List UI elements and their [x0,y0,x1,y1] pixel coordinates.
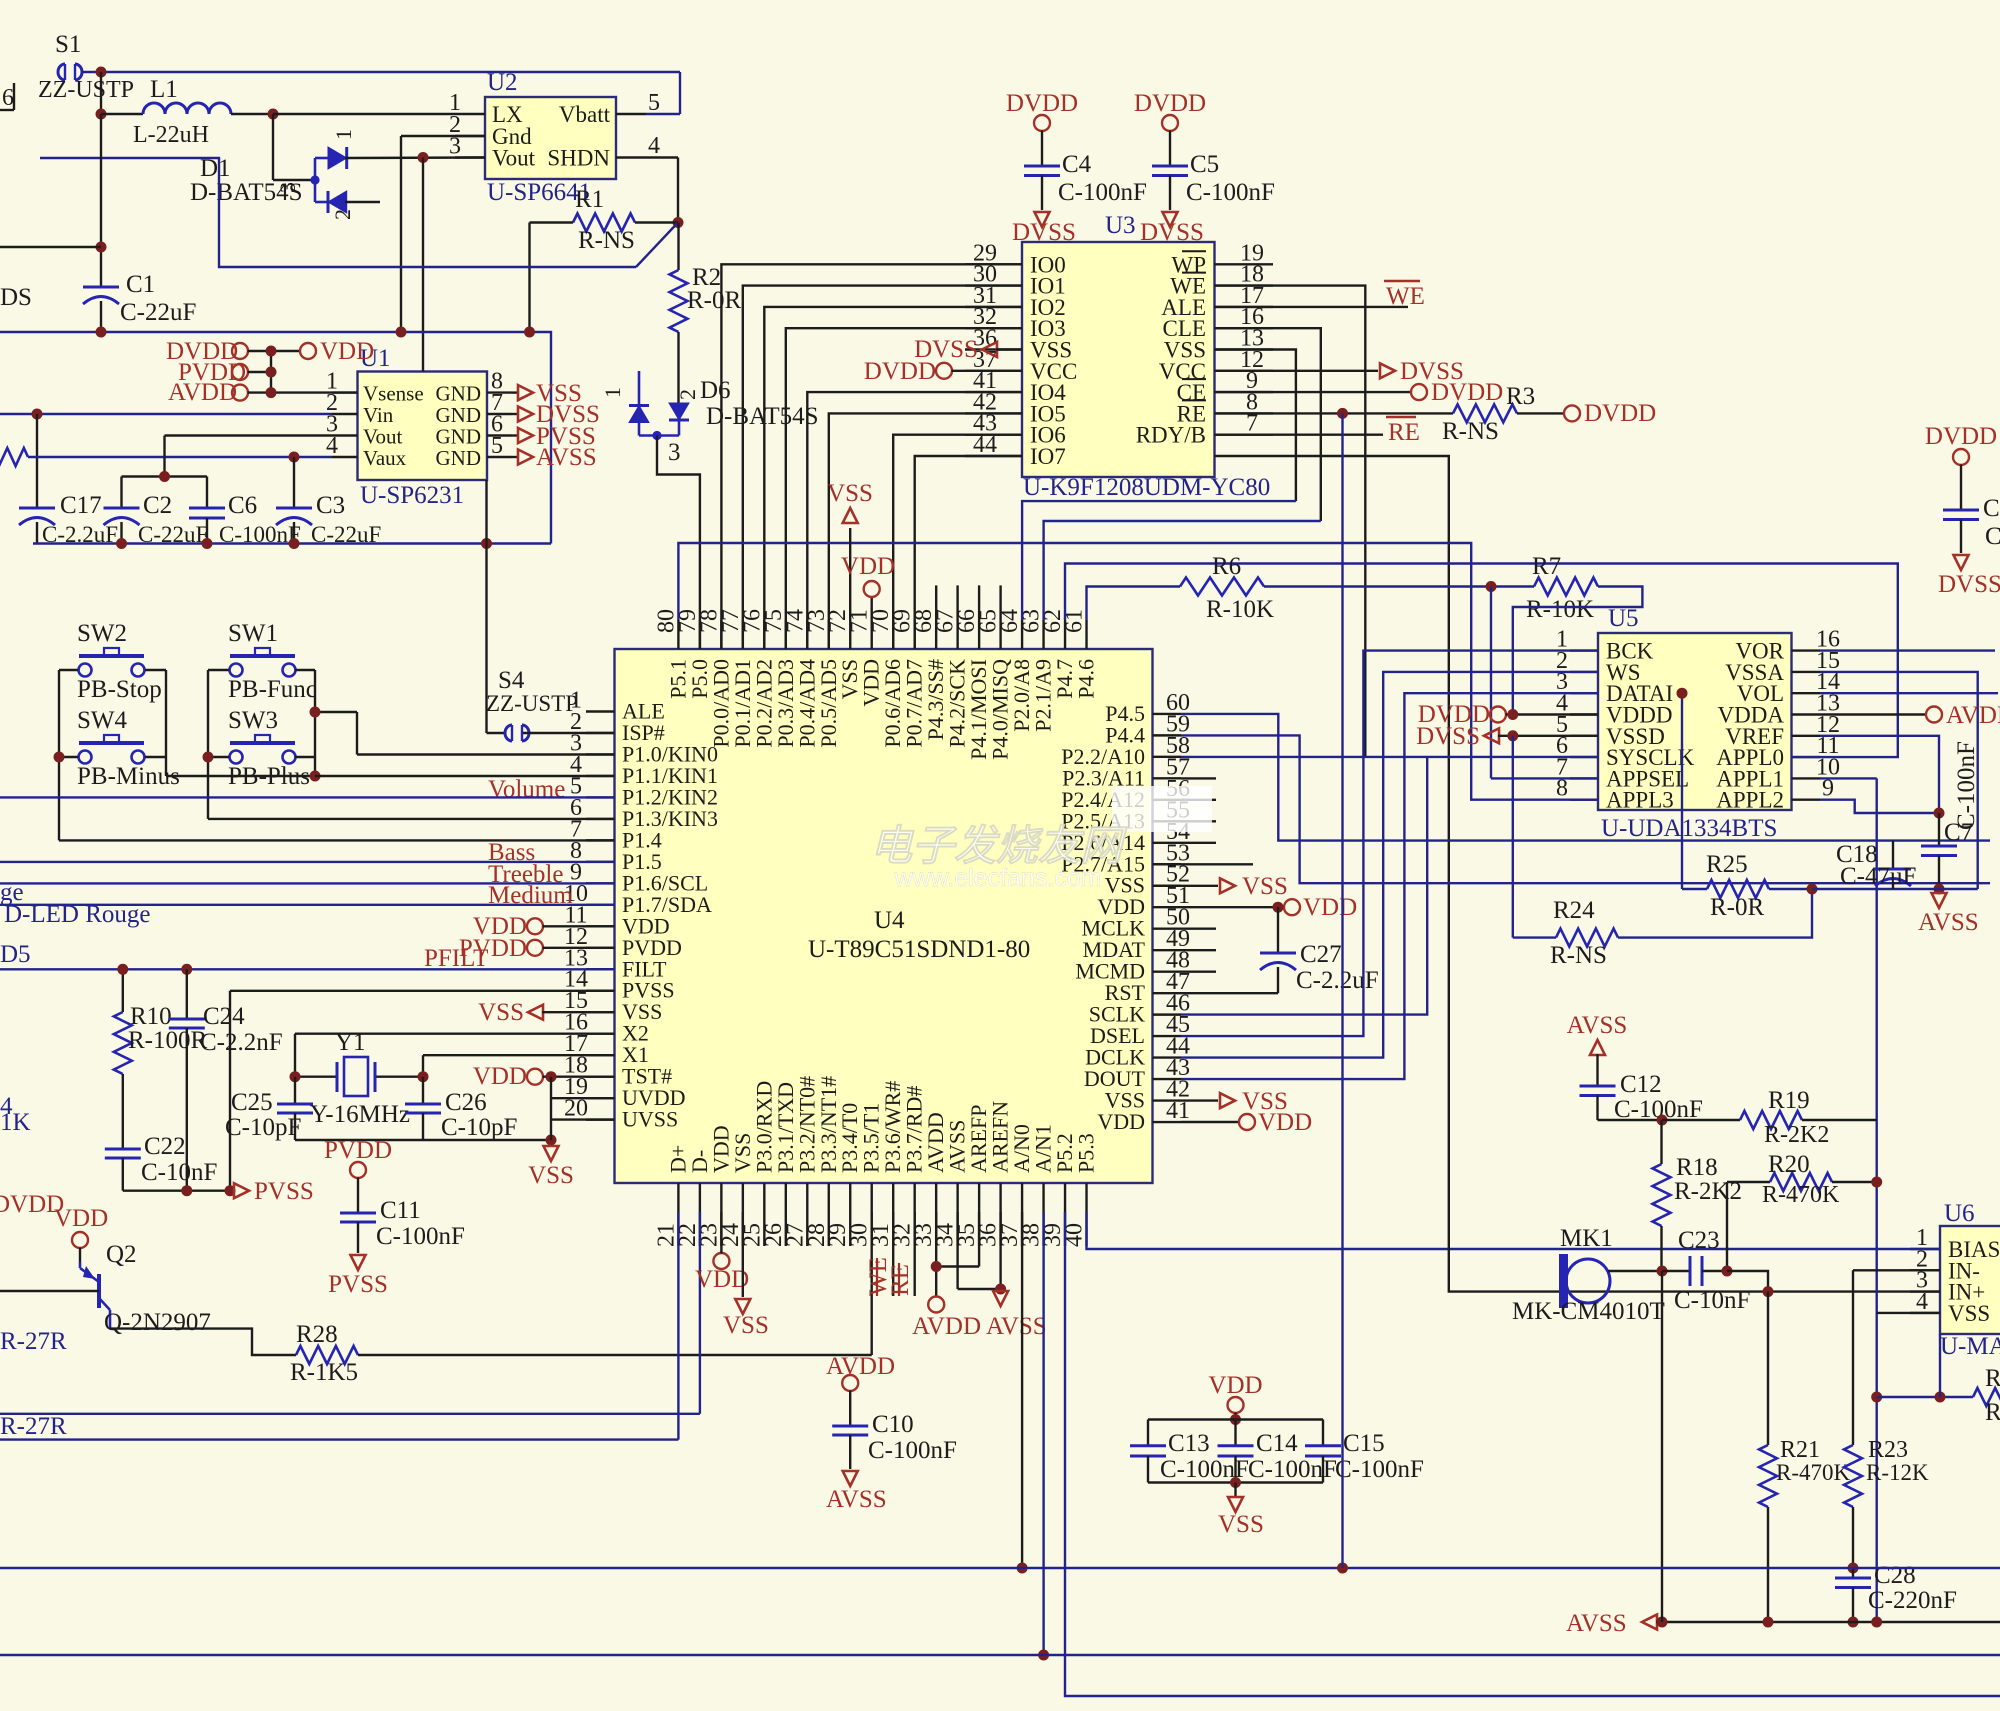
svg-text:R-10K: R-10K [1526,596,1594,623]
svg-text:U-SP6231: U-SP6231 [360,482,464,509]
wire R24 right up to R25 node [1618,889,1812,938]
svg-text:AVDD: AVDD [912,1313,981,1340]
svg-text:PB-Func: PB-Func [228,676,317,703]
junction rail Gnd [396,327,407,338]
svg-text:PVSS: PVSS [254,1178,314,1205]
svg-text:3: 3 [275,182,300,193]
wire SCLK pin46 to SYSCLK line [1181,757,1427,1015]
svg-text:U6: U6 [1944,1200,1975,1227]
power port VDD pin41 [1181,1109,1312,1136]
power arrow DVSS below C4 [1012,212,1076,246]
net label Medium and P1.7 wire [0,882,615,909]
wire WP down to bus [1215,286,1366,757]
junction L1 left [96,109,107,120]
svg-text:AVSS: AVSS [1918,909,1979,936]
net label PFILT and FILT wire [0,945,615,972]
wire left edge to C1 [0,246,101,248]
junction C3 tap [289,452,300,463]
svg-text:DVSS: DVSS [1938,571,2000,598]
svg-text:S1: S1 [55,31,81,58]
capacitor C24 C-2.2nF [169,969,283,1190]
svg-text:L-22uH: L-22uH [133,122,209,148]
wire IO4 to AD4 [807,392,1022,649]
wire D1 cathode to U2 Vout [345,156,485,159]
svg-text:1K: 1K [0,1109,31,1136]
svg-text:C4: C4 [1062,151,1092,178]
IC U2 body U-SP6641 [485,69,616,206]
wire IN- to R23 [1853,1270,1940,1445]
power port PVDD pin12 [459,935,615,962]
watermark text [870,822,1128,892]
power arrow VSS pin15 [478,999,614,1026]
svg-text:U-T89C51SDND1-80: U-T89C51SDND1-80 [808,936,1030,963]
junction R1 right node [673,217,684,228]
svg-text:VSS: VSS [1242,873,1288,900]
switch S1 ZZ-USTP [38,31,134,103]
junction AVDD row [266,387,277,398]
power port VDD pin71 [841,553,895,620]
svg-text:C-100nF: C-100nF [1248,1456,1337,1483]
svg-text:APPL3: APPL3 [1606,788,1674,813]
label R-27R upper [0,1328,67,1355]
wire VSSA right down to AVSS node [1820,672,1978,889]
wire APPSEL down [1491,587,1598,779]
svg-text:VDD: VDD [320,338,374,365]
wire R28 to P3.5 pin30 [871,1212,873,1355]
left edge labels R4 1K [0,1093,31,1136]
wire C12 to R18 R19 node [1598,1119,1663,1121]
svg-text:C23: C23 [1678,1227,1720,1254]
svg-text:2: 2 [675,389,700,400]
stub pin48 [1181,971,1216,973]
U4 pin names, numbers and stubs [564,609,1190,1247]
wire Vout node down to U1 [422,158,424,372]
junction C23 right R20 [1722,1266,1733,1277]
U2 pin names, numbers and stubs [449,90,660,171]
wire P1.1 row [315,775,615,777]
svg-text:C-100nF: C-100nF [1058,179,1147,206]
svg-text:Q2: Q2 [106,1241,137,1268]
resistor R10 R-100R [114,969,208,1149]
diode D6 D-BAT54S [600,371,819,466]
junction rail C3 [289,538,300,549]
junction AVSS R21 [1763,1617,1774,1628]
svg-text:SW4: SW4 [77,707,128,734]
power port VDD pin11 [473,913,615,940]
svg-text:R-10K: R-10K [1206,596,1274,623]
svg-text:GND: GND [436,446,482,470]
svg-text:VDD: VDD [695,1266,749,1293]
svg-text:R-NS: R-NS [1442,418,1499,445]
junction DVDD row [266,346,277,357]
svg-text:P5.3: P5.3 [1074,1133,1099,1173]
resistor R6 R-10K [1180,553,1274,623]
power arrow VSS below caps [1218,1483,1264,1539]
junction SW4 left [54,752,65,763]
wire SW1 right to P1.0 and P1.1 [295,670,615,776]
svg-text:R-0R: R-0R [687,287,742,314]
wire X2 to crystal [295,1034,615,1077]
IC U4 body U-T89C51SDND1-80 [615,649,1153,1183]
svg-text:VSS: VSS [723,1312,769,1339]
svg-text:U-K9F1208UDM-YC80: U-K9F1208UDM-YC80 [1023,474,1270,501]
U1 GND pins to power arrows [512,380,600,471]
net label Volume and P1.2 wire [0,776,615,803]
wire Vin row from left edge [0,413,332,415]
svg-text:VSS: VSS [1948,1301,1990,1326]
net label Bass and P1.5 wire [0,839,615,866]
power arrow DVSS U5 pin5 [1416,723,1598,750]
svg-text:3: 3 [449,134,461,160]
pushbutton SW4 PB-Minus [77,707,180,790]
wire VOL right to edge [1820,692,1998,694]
junction rail ISP pulldown [481,538,492,549]
svg-text:C-10nF: C-10nF [1674,1287,1750,1314]
svg-text:R-470K: R-470K [1776,1460,1851,1485]
resistor R19 R-2K2 [1662,1087,1877,1148]
svg-text:S4: S4 [498,667,525,694]
wire down to diode D1 node [273,114,315,180]
svg-text:C24: C24 [203,1003,245,1030]
svg-text:ZZ-USTP: ZZ-USTP [38,77,134,103]
net label RE bar [1215,417,1420,446]
svg-text:5: 5 [491,433,503,459]
svg-text:R2: R2 [1985,1365,2000,1392]
svg-text:GND: GND [436,382,482,406]
capacitor C22 C-10nF [105,1133,218,1191]
capacitor C28 C-220nF [1835,1562,1957,1622]
power port VDD pin23 [695,1212,749,1293]
capacitor C4 C-100nF [1024,151,1147,210]
wire PVSS pin14 [230,991,615,1191]
svg-text:AVDD: AVDD [168,379,237,406]
power port AVDD with C10 [826,1353,895,1426]
wire P5.2 pin39 down [1065,1212,2000,1696]
net label Treeble and P1.6 wire [0,861,615,888]
svg-text:电子发烧友网: 电子发烧友网 [870,822,1128,869]
svg-text:C17: C17 [60,492,102,519]
junction bus CE vertical [1337,1563,1348,1574]
power arrow VSS pin24 [723,1212,769,1339]
capacitor C11 C-100nF [340,1197,465,1253]
junction A/N1 bottom [1038,1650,1049,1661]
capacitor C25 C-10pF [225,1077,313,1141]
junction VDD caps top [1230,1414,1241,1425]
svg-text:UVSS: UVSS [622,1107,678,1132]
svg-text:DVDD: DVDD [1584,400,1656,427]
net label WE bar pin31 [865,1212,893,1296]
wire IO0 to AD0 [721,264,1022,649]
capacitor C26 C-10pF [405,1077,517,1141]
resistor R28 R-1K5 [290,1321,872,1386]
wire IO7 to AD7 [915,456,1022,649]
svg-text:C-100nF: C-100nF [1186,179,1275,206]
PVSS rail [123,1189,232,1191]
wire IO6 to AD6 [893,435,1022,649]
svg-text:R-2K2: R-2K2 [1764,1122,1829,1148]
wire DOUT pin43 to DATAI [1181,693,1598,1079]
svg-text:AVDD: AVDD [1946,702,2000,729]
stub pin53 [1181,863,1253,865]
power port DVDD with C5 [1134,90,1206,166]
wire IO3 to AD3 [786,328,1022,649]
svg-text:C-100nF: C-100nF [1953,741,1980,830]
inductor L1 L-22uH [101,76,273,148]
power arrow AVSS below C10 [826,1471,887,1513]
wire SW1 SW3 left rail to P1.3 [208,670,615,819]
svg-text:www.elecfans.com: www.elecfans.com [893,864,1101,892]
junction TST tie [546,1071,557,1082]
svg-text:DVDD: DVDD [1006,90,1078,117]
bottom bus line y1655 [0,1654,2000,1656]
wire A/N0 pin37 down [1021,1212,1023,1568]
svg-text:PFILT: PFILT [424,945,488,972]
wire VOR right [1820,649,1995,651]
wire A9 pin63 to ALE [1044,521,1321,620]
svg-text:DS: DS [0,284,32,311]
junction C1 top wire [96,242,107,253]
junction crystal right [418,1071,429,1082]
junction VSS caps bottom [1230,1477,1241,1488]
resistor R21 R-470K vertical [1759,1292,1851,1622]
junction top rail [96,67,107,78]
svg-text:VSS: VSS [1218,1511,1264,1538]
power port DVDD U5 pin4 [1418,701,1598,728]
svg-text:L1: L1 [150,76,178,103]
stub MOSI pin66 [978,585,980,620]
wire TST UVDD UVSS tie [551,1077,615,1140]
wire P4.7 pin62 to APPL0 [1065,564,1898,758]
svg-text:RDY/B: RDY/B [1136,423,1206,448]
wire CE row with junction [1215,412,1454,414]
wire DSEL pin45 to BCK [1181,651,1598,1037]
capacitor C3 C-22uF [276,457,381,547]
svg-text:Vin: Vin [363,403,394,427]
wire U2 Gnd down to rail [401,136,485,332]
transistor Q2 Q-2N2907 [0,1241,211,1336]
power port DVDD U3 pin37 [864,358,1022,385]
junction PVSS C24 [181,1185,192,1196]
junction C17 tap [32,409,43,420]
resistor R20 R-470K [1727,1151,1877,1271]
svg-text:VSS: VSS [478,999,524,1026]
svg-text:U3: U3 [1105,212,1136,239]
wire U2 SHDN pin4 down to R1 node [646,158,678,223]
svg-text:MK-CM4010T: MK-CM4010T [1512,1298,1665,1325]
svg-text:Y-16MHz: Y-16MHz [310,1101,410,1128]
svg-text:C3: C3 [316,492,345,519]
svg-text:GND: GND [436,425,482,449]
stub pin56 [1181,799,1216,801]
junction A/N0 bottom [1017,1563,1028,1574]
svg-text:4: 4 [326,433,338,459]
junction PVDD row [266,367,277,378]
net label RE bar pin32 [887,1212,915,1296]
svg-text:DVDD: DVDD [1134,90,1206,117]
wire X1 to crystal [423,1055,615,1077]
svg-text:5: 5 [648,90,660,116]
svg-text:C11: C11 [380,1197,421,1224]
svg-text:R-27R: R-27R [0,1413,67,1440]
svg-text:R-470K: R-470K [1762,1182,1840,1208]
svg-text:MK1: MK1 [1560,1225,1613,1252]
svg-text:RE: RE [887,1264,914,1296]
wire to edge resistor R26 [1877,1396,1973,1398]
power arrow VSS below crystal [528,1146,574,1189]
junction rail VSS stem [546,1135,557,1146]
power port DVDD with C4 [1006,90,1078,166]
junction DVSS U5 [1507,730,1518,741]
svg-text:R19: R19 [1768,1087,1810,1114]
svg-text:C-100nF: C-100nF [376,1223,465,1250]
junction rail C1 [96,327,107,338]
wire vertical S1 down to L1 [100,72,102,114]
svg-text:3: 3 [668,439,681,466]
svg-text:R-12K: R-12K [1866,1460,1929,1485]
svg-text:DVSS: DVSS [1416,723,1480,750]
capacitor C10 C-100nF [832,1411,957,1469]
svg-text:P4.6: P4.6 [1074,659,1099,699]
wire CLE down to A8 line [1215,350,1296,502]
label DVDD left edge [0,1191,64,1218]
junction SW1 node A [310,707,321,718]
svg-text:R-0R: R-0R [1710,894,1765,921]
svg-text:R25: R25 [1706,851,1748,878]
svg-text:C13: C13 [1168,1430,1210,1457]
wire APPL2 to C7 node [1820,800,1939,813]
svg-text:PVDD: PVDD [324,1137,392,1164]
svg-text:GND: GND [436,403,482,427]
wire SW2 right rail to P1.1 row [145,670,315,776]
svg-text:IO7: IO7 [1030,444,1066,469]
svg-text:C-220nF: C-220nF [1868,1587,1957,1614]
power arrow VSS pin42 [1181,1088,1288,1115]
svg-text:C12: C12 [1620,1071,1662,1098]
svg-text:R-1K5: R-1K5 [290,1359,358,1386]
svg-text:R7: R7 [1532,553,1561,580]
crystal ground rail [295,1139,551,1141]
power arrow AVSS above C12 [1567,1012,1628,1086]
svg-text:20: 20 [564,1096,588,1122]
svg-text:C-100nF: C-100nF [868,1437,957,1464]
svg-text:U5: U5 [1608,605,1639,632]
svg-text:VDD: VDD [1258,1109,1312,1136]
power arrow DVSS U3 pin13 [1215,358,1464,385]
svg-text:6: 6 [2,85,14,111]
svg-text:1: 1 [331,129,356,140]
wire A/N1 pin38 down [1042,1212,1044,1655]
svg-text:AVSS: AVSS [536,444,597,471]
junction VDD C27 [1273,902,1284,913]
wire DVSS node to R24 [1513,736,1556,938]
junction D1 common node blue [310,175,319,184]
stub SS# pin68 [935,585,937,620]
svg-text:DVSS: DVSS [1140,219,1204,246]
stub pin55 [1181,820,1216,822]
capacitor C7 C-100nF vertical [1921,741,1980,889]
left rail to D+ pin21 [0,1212,678,1440]
pushbutton SW1 PB-Func [228,620,317,703]
svg-text:41: 41 [1166,1098,1190,1124]
diagonal wire to R1 node [40,158,678,267]
svg-text:R-NS: R-NS [1550,942,1607,969]
svg-text:PB-Stop: PB-Stop [77,676,162,703]
svg-text:C22: C22 [144,1133,186,1160]
wire P4.4 pin59 long line right [1181,735,1990,883]
junction L1 right [268,109,279,120]
svg-text:Vaux: Vaux [363,446,407,470]
svg-text:AVSS: AVSS [1566,1610,1627,1637]
stub MISQ pin65 [999,585,1001,620]
svg-text:R1: R1 [575,186,604,213]
svg-text:DVDD: DVDD [1925,423,1997,450]
svg-text:4: 4 [1916,1289,1928,1315]
capacitor C5 C-100nF [1152,151,1275,210]
capacitor C23 C-10nF [1662,1227,1750,1314]
wire Q2 to R28 [110,1329,296,1355]
svg-text:C6: C6 [228,492,257,519]
left edge label ge (Rouge) [0,879,24,906]
svg-text:SW2: SW2 [77,620,127,647]
junction AVSS mic [1657,1617,1668,1628]
wire Vout row to C2 C6 pair [122,436,333,477]
svg-text:R18: R18 [1676,1154,1718,1181]
svg-text:SW3: SW3 [228,707,278,734]
wire R1 left down to rail [528,223,530,333]
svg-text:SHDN: SHDN [547,146,610,171]
wire R25 left to VOL row [1681,693,1683,889]
svg-text:R10: R10 [130,1003,172,1030]
svg-text:R-NS: R-NS [578,227,635,254]
svg-text:R-100R: R-100R [128,1027,208,1054]
wire C23 node to IN+ line [1727,1271,1768,1292]
svg-text:VDD: VDD [841,553,895,580]
stub pin57 [1181,777,1216,779]
svg-text:Volume: Volume [488,776,565,803]
svg-text:DVSS: DVSS [1012,219,1076,246]
svg-text:PVSS: PVSS [328,1271,388,1298]
junction AVDD pins [931,1261,942,1272]
svg-text:R3: R3 [1506,383,1535,410]
wire L1 to U2 LX pin1 [273,113,455,115]
rail VDD horizontal y=332 [0,332,551,544]
left rail to D- pin22 [0,1212,700,1414]
power arrow PVSS below C11 [328,1255,388,1298]
svg-text:SW1: SW1 [228,620,278,647]
junction C28 bottom AVSS [1848,1617,1859,1628]
resistor R7 R-10K [1526,553,1598,623]
wire IO1 to AD1 [743,286,1022,649]
capacitor C27 C-2.2uF [1260,907,1379,994]
svg-text:APPL2: APPL2 [1716,788,1784,813]
svg-text:R-: R- [1985,1399,2000,1426]
AVSS rail bottom right [1566,1610,2000,1637]
svg-text:C2: C2 [143,492,172,519]
junction AVSS pins [995,1284,1006,1295]
svg-text:D6: D6 [700,377,731,404]
wire P5.3 pin40 to U6 BIAS [1087,1212,1941,1249]
power arrow AVSS pin36 [986,1291,1047,1340]
power port DVDD with C8 [1925,423,1997,510]
svg-text:VDD: VDD [1097,1109,1145,1134]
power arrow PVSS [234,1178,314,1205]
svg-text:C14: C14 [1256,1430,1298,1457]
power port VDD with C13 C14 C15 [1208,1372,1262,1420]
U1 pin names, numbers and stubs [326,369,512,470]
net label WE bar right of U3 [1215,281,1425,310]
resistor R1 R-NS [530,186,679,254]
power port VDD for Q2 [54,1205,108,1262]
